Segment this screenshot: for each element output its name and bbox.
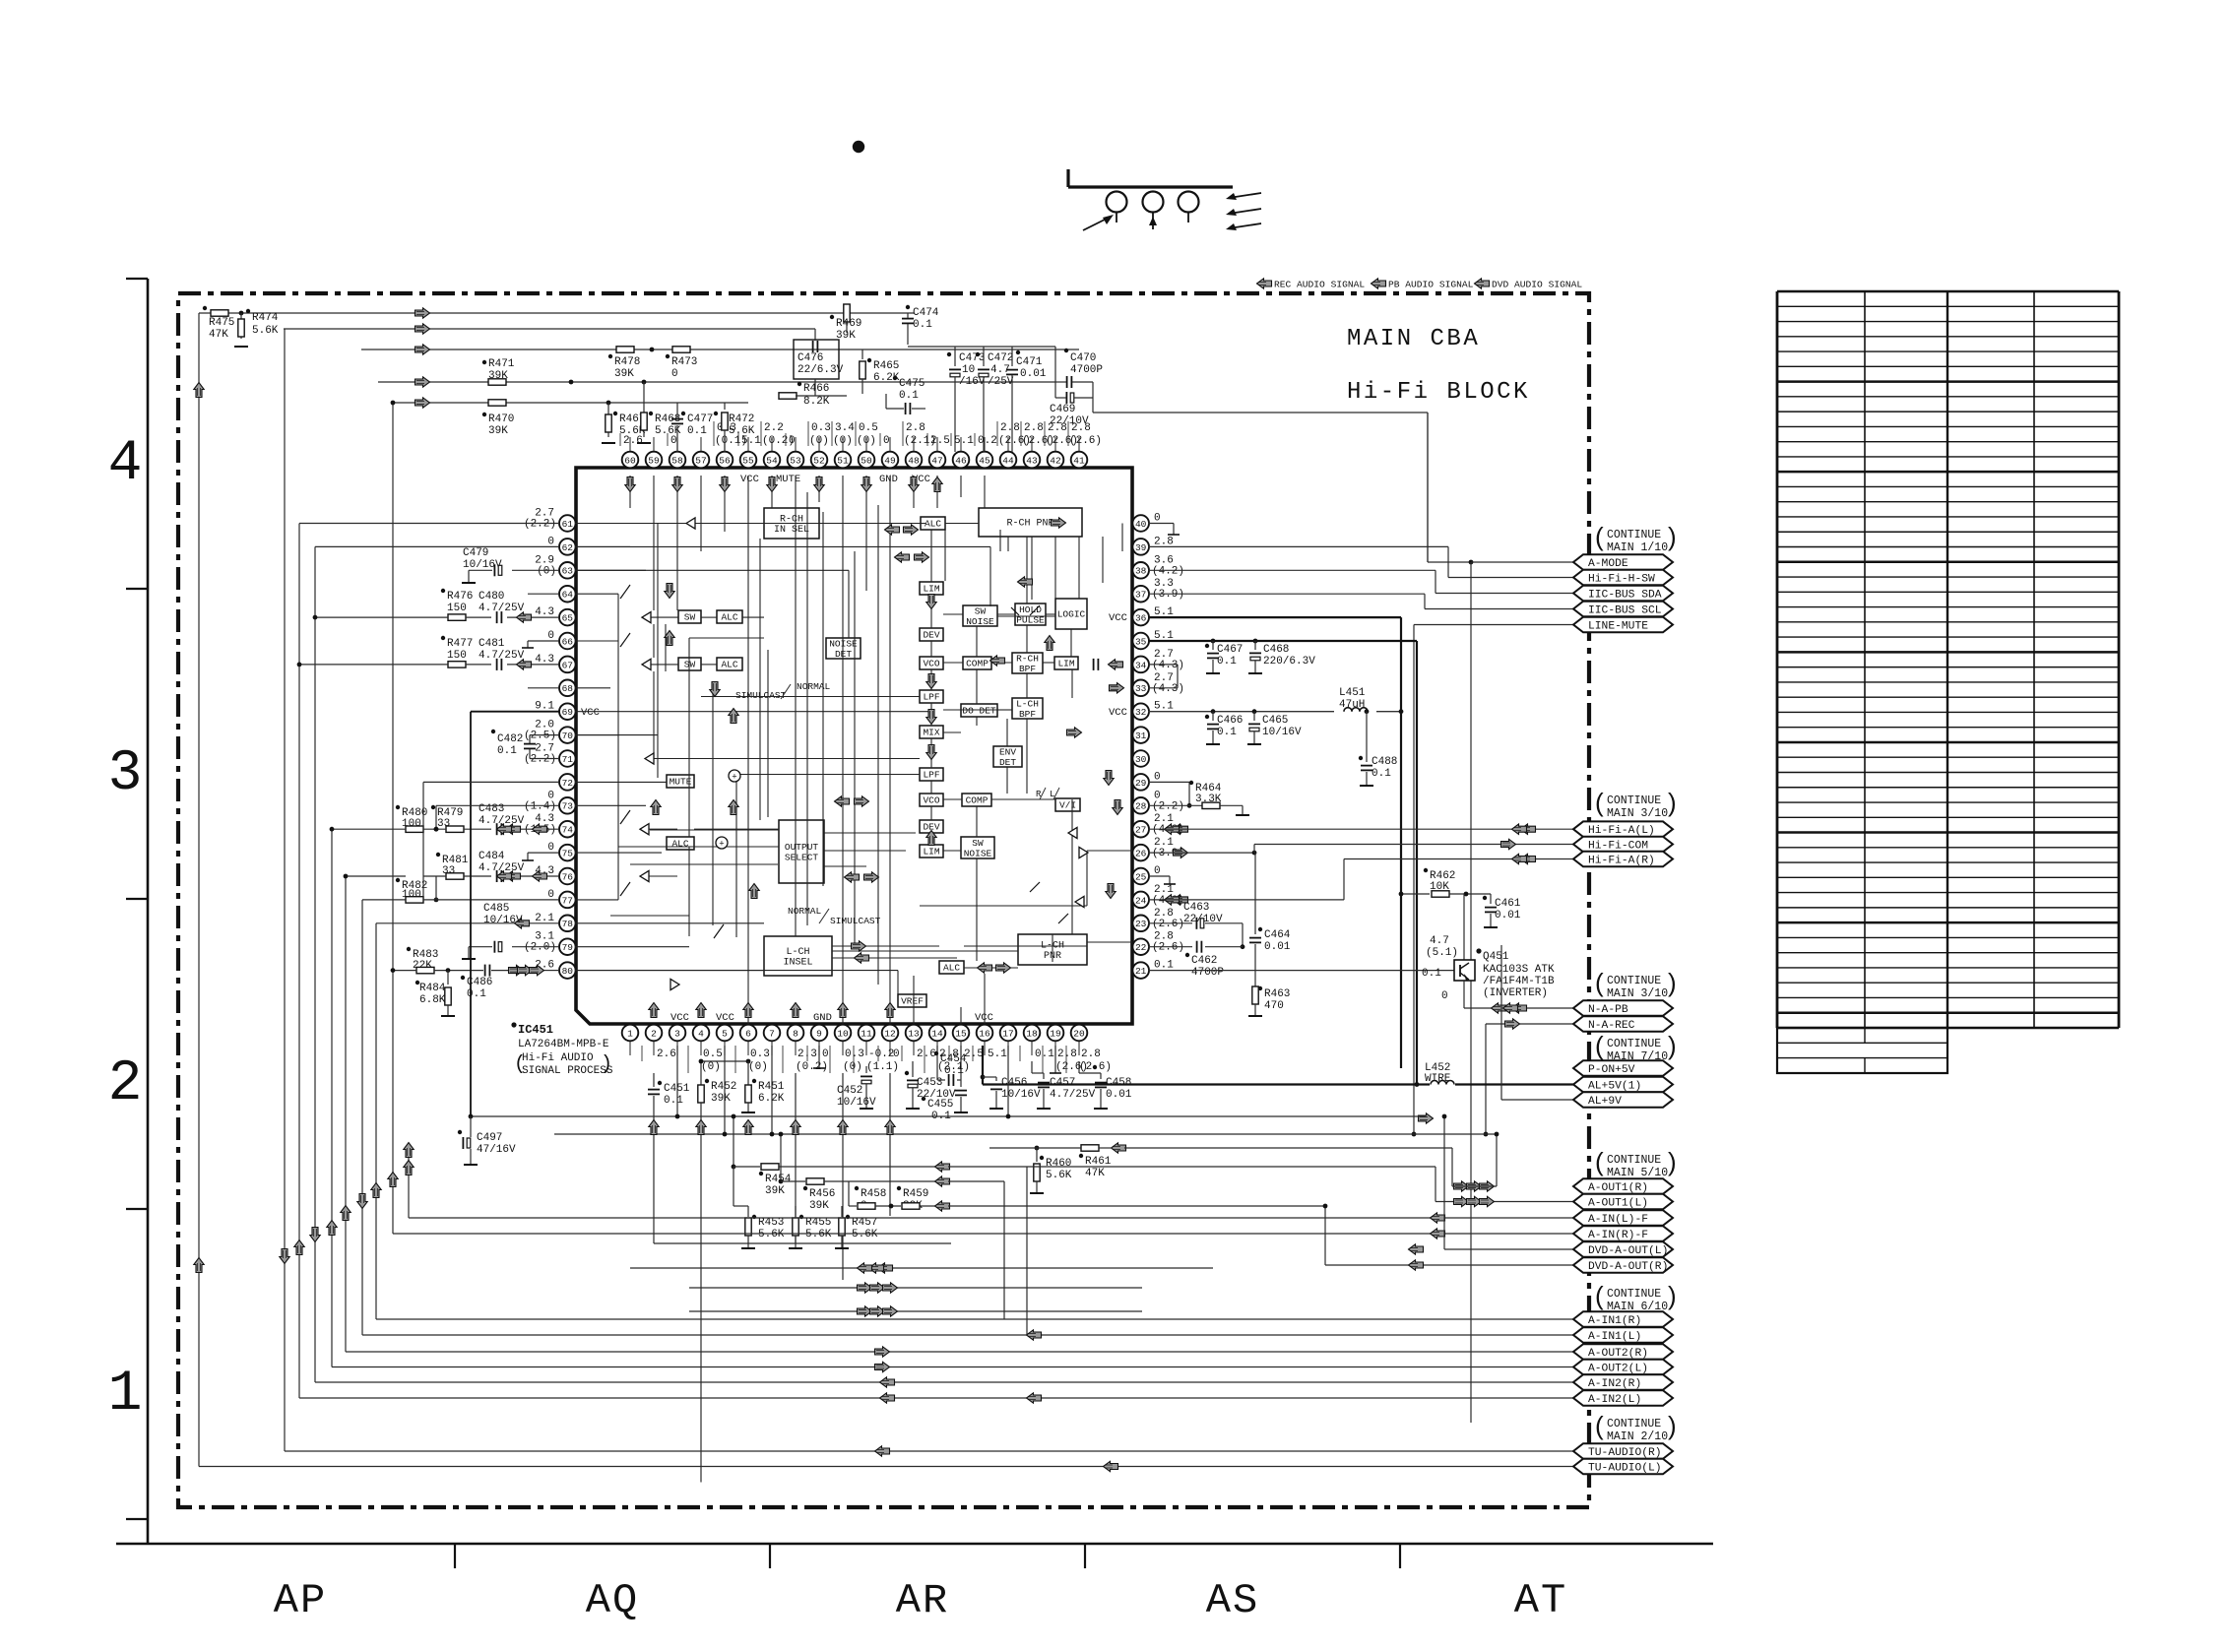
svg-text:A-IN2(R): A-IN2(R) bbox=[1588, 1378, 1641, 1390]
resistor R459 39K bbox=[897, 1186, 901, 1190]
svg-text:16: 16 bbox=[979, 1028, 990, 1039]
tag arrow AL+9V feed bbox=[1419, 1113, 1434, 1123]
wire bottom bus 2 bbox=[554, 1133, 1497, 1135]
svg-text:28: 28 bbox=[1135, 801, 1147, 812]
svg-text:(: ( bbox=[1595, 788, 1604, 817]
svg-text:0.1: 0.1 bbox=[664, 1095, 683, 1107]
tag arrows mid run 2 bbox=[858, 1306, 872, 1316]
wire R461 to A-OUT1R bbox=[1124, 1147, 1452, 1149]
svg-text:44: 44 bbox=[1002, 455, 1014, 466]
block LIM 1 bbox=[920, 582, 943, 595]
wire bottom bus 1 bbox=[471, 1115, 1426, 1117]
svg-text:): ) bbox=[1668, 1411, 1677, 1440]
svg-text:58: 58 bbox=[671, 455, 683, 466]
wire pin2 bottom run bbox=[654, 1242, 951, 1244]
svg-text:12: 12 bbox=[884, 1028, 896, 1039]
svg-text:C474: C474 bbox=[913, 307, 939, 319]
wire AL+5V from pin16 bbox=[982, 1046, 984, 1085]
svg-text:A-IN2(L): A-IN2(L) bbox=[1588, 1394, 1641, 1406]
svg-text:ALC: ALC bbox=[721, 612, 737, 623]
svg-text:11: 11 bbox=[861, 1028, 872, 1039]
svg-text:C471: C471 bbox=[1016, 356, 1043, 368]
svg-text:DET: DET bbox=[835, 649, 852, 660]
svg-text:49: 49 bbox=[884, 455, 896, 466]
svg-text:C453: C453 bbox=[917, 1077, 942, 1089]
svg-text:8: 8 bbox=[793, 1028, 798, 1039]
resistor R483 22K bbox=[407, 947, 411, 951]
svg-text:(: ( bbox=[1595, 1147, 1604, 1176]
svg-text:/25V: /25V bbox=[988, 376, 1014, 388]
triangle buffer right 24 bbox=[1075, 896, 1084, 907]
wire pin32 bus bbox=[1148, 711, 1334, 713]
tag pin33 bbox=[1110, 683, 1124, 693]
svg-text:0: 0 bbox=[822, 1048, 829, 1060]
svg-text:CONTINUE: CONTINUE bbox=[1607, 975, 1661, 987]
svg-text:0.3: 0.3 bbox=[750, 1048, 770, 1060]
svg-text:C470: C470 bbox=[1070, 352, 1096, 364]
svg-text:56: 56 bbox=[719, 455, 731, 466]
tape path arrow up bbox=[1152, 221, 1154, 229]
svg-text:R473: R473 bbox=[671, 356, 697, 368]
ic switch marks bbox=[620, 585, 630, 599]
wire pin36 VCC bus bbox=[1148, 616, 1401, 618]
resistor R466 8.2K bbox=[814, 379, 816, 396]
svg-text:8.2K: 8.2K bbox=[803, 396, 830, 408]
node AL+9V bbox=[1573, 1092, 1673, 1108]
block R-CH PNR bbox=[979, 508, 1082, 537]
svg-text:LPF: LPF bbox=[923, 692, 939, 703]
svg-text:34: 34 bbox=[1135, 660, 1147, 670]
svg-text:(4.3): (4.3) bbox=[1152, 660, 1184, 671]
node junction R474 bbox=[239, 311, 244, 316]
wire pin21 to Q451 base bbox=[1148, 970, 1454, 972]
svg-text:7: 7 bbox=[769, 1028, 775, 1039]
wire LINE-MUTE bbox=[1413, 625, 1415, 1135]
svg-text:DVD AUDIO SIGNAL: DVD AUDIO SIGNAL bbox=[1492, 280, 1582, 290]
svg-text:0.1: 0.1 bbox=[1217, 656, 1237, 667]
resistor R473 0 bbox=[672, 347, 690, 352]
wire ic inner horizontals bbox=[575, 523, 688, 525]
tag arrows staircase bbox=[194, 383, 204, 398]
svg-text:INSEL: INSEL bbox=[783, 957, 812, 968]
svg-text:(0): (0) bbox=[748, 1061, 768, 1073]
svg-text:CONTINUE: CONTINUE bbox=[1607, 1154, 1661, 1167]
svg-text:0.5: 0.5 bbox=[859, 422, 878, 434]
svg-text:(4.2): (4.2) bbox=[1152, 565, 1184, 577]
svg-text:R470: R470 bbox=[488, 413, 514, 425]
wire ic inner vertical buses bbox=[747, 476, 749, 982]
resistor R476 150 bbox=[441, 589, 445, 593]
svg-text:36: 36 bbox=[1135, 613, 1147, 624]
svg-text:10/16V: 10/16V bbox=[1262, 727, 1302, 738]
wire pin5 column bbox=[724, 1046, 726, 1134]
wire ic inner block links bbox=[819, 523, 921, 525]
wire ic pin61 input bbox=[575, 523, 925, 525]
svg-text:A-IN1(L): A-IN1(L) bbox=[1588, 1331, 1641, 1343]
node Hi-Fi-H-SW bbox=[1573, 570, 1673, 586]
resistor R462 10K bbox=[1424, 868, 1428, 872]
wire pin24 Hi-Fi-A(R) bbox=[1174, 895, 1188, 905]
svg-text:(2.0): (2.0) bbox=[524, 942, 556, 954]
svg-text:6: 6 bbox=[745, 1028, 751, 1039]
capacitor C452 10/16V bbox=[865, 1066, 867, 1073]
svg-text:10/16V: 10/16V bbox=[483, 915, 523, 926]
tape path symbol bar bbox=[1068, 185, 1233, 188]
svg-text:10: 10 bbox=[962, 364, 975, 376]
svg-text:Hi-Fi-A(L): Hi-Fi-A(L) bbox=[1588, 825, 1655, 837]
wire pin77 bbox=[362, 899, 406, 901]
svg-text:3.3K: 3.3K bbox=[1195, 794, 1222, 805]
svg-text:24: 24 bbox=[1135, 895, 1147, 906]
svg-text:IC451: IC451 bbox=[518, 1023, 553, 1037]
svg-text:N-A-PB: N-A-PB bbox=[1588, 1004, 1628, 1016]
svg-text:VCC: VCC bbox=[581, 707, 600, 719]
svg-text:39K: 39K bbox=[711, 1093, 731, 1105]
triangle buffer pin74 bbox=[640, 824, 649, 835]
ground R474 bbox=[234, 346, 248, 348]
svg-text:43: 43 bbox=[1026, 455, 1038, 466]
resistor R479 33 bbox=[431, 805, 435, 809]
svg-text:R463: R463 bbox=[1264, 988, 1290, 1000]
svg-text:REC AUDIO SIGNAL: REC AUDIO SIGNAL bbox=[1274, 280, 1365, 290]
svg-text:GND: GND bbox=[879, 474, 898, 485]
svg-text:A-OUT1(L): A-OUT1(L) bbox=[1588, 1198, 1648, 1210]
triangle buffer pin71 bbox=[645, 753, 654, 764]
inductor L452 WIRE bbox=[1417, 1083, 1430, 1085]
svg-text:0.1: 0.1 bbox=[1217, 727, 1237, 738]
tag arrows pin74 bbox=[506, 824, 521, 834]
svg-text:5: 5 bbox=[722, 1028, 728, 1039]
tag arrows A-OUT1 bbox=[1454, 1181, 1469, 1191]
svg-text:10/16V: 10/16V bbox=[1001, 1089, 1041, 1101]
capacitor C470 4700P bbox=[1064, 349, 1068, 352]
svg-text:(: ( bbox=[1595, 1411, 1604, 1440]
tape path roller 1 bbox=[1107, 192, 1127, 213]
svg-text:SIMULCAST: SIMULCAST bbox=[735, 690, 787, 701]
svg-text:5.1: 5.1 bbox=[988, 1048, 1007, 1060]
svg-text:50: 50 bbox=[861, 455, 872, 466]
svg-text:62: 62 bbox=[562, 542, 574, 553]
capacitor C453 22/10V bbox=[912, 1061, 914, 1077]
IC451 left pin circles 61-80 bbox=[559, 515, 576, 532]
svg-text:C461: C461 bbox=[1495, 898, 1521, 910]
wire pin25 stub bbox=[1148, 875, 1170, 877]
svg-text:(4.3): (4.3) bbox=[1152, 683, 1184, 695]
svg-text:WIRE: WIRE bbox=[1425, 1073, 1451, 1085]
svg-text:0.3: 0.3 bbox=[811, 422, 831, 434]
svg-text:C484: C484 bbox=[478, 851, 505, 862]
wire mid run 3 bbox=[630, 1267, 1213, 1269]
svg-text:C469: C469 bbox=[1050, 404, 1075, 415]
svg-text:(2.6): (2.6) bbox=[1069, 435, 1102, 447]
svg-text:+: + bbox=[719, 840, 724, 850]
svg-text:IN SEL: IN SEL bbox=[774, 525, 809, 536]
svg-text:R484: R484 bbox=[419, 983, 446, 994]
resistor R456 39K bbox=[780, 1134, 782, 1181]
resistor R475 47K bbox=[211, 310, 228, 316]
svg-text:2.6: 2.6 bbox=[917, 1048, 936, 1060]
svg-text:MAIN 1/10: MAIN 1/10 bbox=[1607, 541, 1668, 554]
capacitor C488 0.1 bbox=[1365, 709, 1370, 714]
node A-OUT2(R) bbox=[1573, 1344, 1673, 1360]
svg-text:22/6.3V: 22/6.3V bbox=[797, 364, 844, 376]
svg-text:22: 22 bbox=[1135, 942, 1147, 953]
svg-text:6.8K: 6.8K bbox=[419, 994, 446, 1006]
svg-text:LA7264BM-MPB-E: LA7264BM-MPB-E bbox=[518, 1039, 609, 1050]
svg-text:0.1: 0.1 bbox=[944, 1065, 964, 1077]
node pin67 join bbox=[297, 663, 302, 667]
IC451 bottom pin circles 1-20 bbox=[629, 1042, 631, 1056]
wire A-MODE long vertical bbox=[1470, 562, 1472, 1423]
svg-text:0: 0 bbox=[789, 435, 796, 447]
wire pin37 to IIC-BUS SCL bbox=[1148, 593, 1425, 595]
svg-text:ALC: ALC bbox=[943, 963, 960, 974]
tape path arrows out bbox=[1229, 193, 1261, 198]
wire pin73 outer bbox=[436, 804, 559, 806]
triangle buffer pin61 bbox=[686, 518, 695, 529]
svg-text:18: 18 bbox=[1026, 1028, 1038, 1039]
capacitor C458 0.01 bbox=[1078, 1061, 1080, 1073]
svg-text:30: 30 bbox=[1135, 754, 1147, 765]
svg-text:GND: GND bbox=[813, 1012, 832, 1024]
svg-text:0.1: 0.1 bbox=[1154, 960, 1174, 972]
svg-text:MAIN 3/10: MAIN 3/10 bbox=[1607, 987, 1668, 1000]
block SW NOISE 1 bbox=[963, 605, 997, 626]
svg-text:(0): (0) bbox=[833, 435, 853, 447]
svg-text:39K: 39K bbox=[488, 370, 508, 382]
block COMP 1 bbox=[963, 657, 991, 669]
resistor R481 33 bbox=[436, 853, 440, 857]
tag arrow R456 line bbox=[935, 1176, 950, 1186]
resistor R477 150 bbox=[441, 636, 445, 640]
capacitor C465 10/16V bbox=[1252, 709, 1257, 714]
svg-text:0.01: 0.01 bbox=[1106, 1089, 1132, 1101]
svg-text:A-OUT2(L): A-OUT2(L) bbox=[1588, 1364, 1648, 1375]
svg-text:A-IN(R)-F: A-IN(R)-F bbox=[1588, 1230, 1648, 1241]
ground R467 bbox=[602, 442, 615, 444]
wire A-OUT1R from bus bbox=[1452, 1185, 1497, 1187]
svg-text:0: 0 bbox=[671, 368, 678, 380]
svg-text:0.2: 0.2 bbox=[978, 435, 997, 447]
capacitor C497 47/16V bbox=[470, 1116, 472, 1137]
svg-text:R474: R474 bbox=[252, 312, 279, 324]
svg-text:0: 0 bbox=[893, 1048, 900, 1060]
svg-text:C488: C488 bbox=[1372, 756, 1397, 768]
block ALC b bbox=[717, 658, 742, 670]
svg-text:0.1: 0.1 bbox=[497, 745, 517, 757]
hi-fi block dash-dot border bbox=[178, 293, 1589, 1507]
block DEV 2 bbox=[920, 820, 943, 833]
node IIC-BUS SDA bbox=[1573, 586, 1673, 602]
svg-text:Hi-Fi-H-SW: Hi-Fi-H-SW bbox=[1588, 574, 1655, 586]
svg-text:BPF: BPF bbox=[1019, 709, 1036, 720]
capacitor C472 4.7/25V bbox=[983, 347, 985, 366]
svg-text:C464: C464 bbox=[1264, 929, 1291, 941]
resistor R453 5.6K bbox=[747, 1206, 749, 1217]
svg-text:DEV: DEV bbox=[923, 630, 939, 641]
wire pin74 bbox=[332, 828, 406, 830]
svg-text:33: 33 bbox=[1135, 683, 1147, 694]
svg-text:C463: C463 bbox=[1183, 902, 1209, 914]
svg-text:74: 74 bbox=[562, 825, 574, 836]
svg-text:C482: C482 bbox=[497, 733, 523, 745]
svg-text:(: ( bbox=[514, 1053, 526, 1076]
svg-text:77: 77 bbox=[562, 895, 573, 906]
block LOGIC bbox=[1055, 599, 1087, 629]
node A-OUT1(L) bbox=[1573, 1194, 1673, 1210]
svg-text:Hi-Fi-A(R): Hi-Fi-A(R) bbox=[1588, 856, 1655, 867]
svg-text:AP: AP bbox=[274, 1577, 327, 1624]
svg-text:): ) bbox=[1668, 522, 1677, 551]
wire pin65 bbox=[315, 616, 448, 618]
svg-text:A-OUT1(R): A-OUT1(R) bbox=[1588, 1182, 1648, 1194]
svg-text:C475: C475 bbox=[899, 378, 925, 390]
svg-text:A-IN(L)-F: A-IN(L)-F bbox=[1588, 1214, 1648, 1226]
svg-text:3: 3 bbox=[674, 1028, 680, 1039]
svg-text:/FA1F4M-T1B: /FA1F4M-T1B bbox=[1483, 976, 1555, 987]
resistor R474 5.6K bbox=[240, 313, 242, 339]
svg-text:2.5: 2.5 bbox=[930, 435, 950, 447]
svg-text:20: 20 bbox=[1073, 1028, 1085, 1039]
transistor Q451 inverter bbox=[1463, 894, 1465, 960]
resistor R471 39K bbox=[488, 379, 506, 385]
resistor R467 5.6K bbox=[606, 401, 611, 406]
svg-text:2.1: 2.1 bbox=[535, 913, 554, 924]
wire ic inner mesh extra bbox=[575, 545, 990, 547]
svg-text:SW: SW bbox=[972, 838, 984, 849]
sheet border ruler bottom bbox=[116, 1543, 1713, 1546]
block ENV DET bbox=[993, 746, 1022, 767]
svg-text:220/6.3V: 220/6.3V bbox=[1263, 656, 1315, 667]
svg-text:53: 53 bbox=[790, 455, 801, 466]
svg-text:72: 72 bbox=[562, 778, 574, 789]
svg-text:DET: DET bbox=[999, 757, 1016, 768]
resistor R455 5.6K bbox=[795, 1217, 797, 1243]
svg-text:39K: 39K bbox=[809, 1200, 829, 1212]
svg-text:2.8: 2.8 bbox=[1000, 422, 1020, 434]
svg-text:2: 2 bbox=[108, 1052, 143, 1116]
svg-text:27: 27 bbox=[1135, 825, 1146, 836]
svg-text:DVD-A-OUT(R): DVD-A-OUT(R) bbox=[1588, 1261, 1668, 1273]
svg-text:4: 4 bbox=[108, 432, 143, 496]
resistor R480 100 bbox=[396, 805, 400, 809]
resistor R454 39K bbox=[733, 1116, 734, 1167]
triangle buffer pin67 bbox=[642, 659, 651, 669]
ground R468 bbox=[637, 442, 651, 444]
svg-text:C466: C466 bbox=[1217, 715, 1243, 727]
wire mid run 1 bbox=[689, 1287, 1142, 1289]
resistor R460 5.6K bbox=[1035, 1146, 1040, 1151]
svg-text:(0): (0) bbox=[701, 1061, 721, 1073]
svg-text:79: 79 bbox=[562, 942, 574, 953]
legend DVD AUDIO SIGNAL bbox=[1475, 279, 1490, 288]
legend PB AUDIO SIGNAL bbox=[1372, 279, 1386, 288]
svg-text:): ) bbox=[1668, 1031, 1677, 1060]
svg-text:DVD-A-OUT(L): DVD-A-OUT(L) bbox=[1588, 1245, 1668, 1257]
svg-text:C457: C457 bbox=[1050, 1077, 1075, 1089]
tag arrow pin67 bbox=[517, 660, 532, 669]
junction dots staircase bbox=[391, 968, 396, 973]
svg-text:NOISE: NOISE bbox=[966, 616, 994, 627]
block VCO 2 bbox=[920, 794, 943, 806]
svg-text:(0): (0) bbox=[843, 1061, 862, 1073]
wire pin72 outer bbox=[423, 781, 559, 783]
svg-text:A-IN1(R): A-IN1(R) bbox=[1588, 1315, 1641, 1327]
svg-text:39K: 39K bbox=[488, 425, 508, 437]
svg-text:0.1: 0.1 bbox=[467, 988, 486, 1000]
svg-text:67: 67 bbox=[562, 660, 573, 670]
svg-text:C473: C473 bbox=[959, 352, 985, 364]
svg-text:IIC-BUS SCL: IIC-BUS SCL bbox=[1588, 605, 1662, 617]
svg-text:C485: C485 bbox=[483, 903, 509, 915]
svg-text:70: 70 bbox=[562, 731, 574, 741]
svg-text:LIM: LIM bbox=[923, 584, 939, 595]
svg-text:C454: C454 bbox=[940, 1053, 967, 1065]
svg-text:C476: C476 bbox=[797, 352, 823, 364]
node pin65 join bbox=[313, 615, 318, 620]
svg-text:Hi-Fi BLOCK: Hi-Fi BLOCK bbox=[1347, 379, 1530, 406]
tags A-IN-F bbox=[1431, 1213, 1445, 1223]
svg-text:-0.2: -0.2 bbox=[868, 1048, 894, 1060]
wire pin27 Hi-Fi-A(L) bbox=[1174, 824, 1188, 834]
block DO DET bbox=[961, 704, 997, 717]
node AL+5V(1) bbox=[1573, 1077, 1673, 1093]
svg-text:5.1: 5.1 bbox=[954, 435, 974, 447]
svg-text:59: 59 bbox=[648, 455, 660, 466]
capacitor C457 4.7/25V bbox=[1031, 1061, 1033, 1073]
resistor R469 39K bbox=[846, 313, 848, 333]
svg-text:17: 17 bbox=[1002, 1028, 1013, 1039]
svg-text:NORMAL: NORMAL bbox=[788, 906, 822, 917]
triangle buffer right 27 bbox=[1068, 827, 1077, 838]
svg-text:0: 0 bbox=[1154, 865, 1161, 877]
svg-text:R465: R465 bbox=[873, 360, 899, 372]
svg-text:SIMULCAST: SIMULCAST bbox=[830, 916, 881, 926]
svg-text:VCO: VCO bbox=[923, 795, 939, 806]
svg-text:AR: AR bbox=[896, 1577, 949, 1624]
svg-text:R466: R466 bbox=[803, 383, 829, 395]
svg-text:13: 13 bbox=[908, 1028, 920, 1039]
wire top bus 2 bbox=[284, 328, 815, 330]
svg-text:SW: SW bbox=[684, 660, 696, 670]
svg-text:R460: R460 bbox=[1046, 1158, 1071, 1170]
svg-text:NORMAL: NORMAL bbox=[797, 681, 831, 692]
resistor R452 39K bbox=[700, 1061, 702, 1085]
svg-text:1: 1 bbox=[627, 1028, 633, 1039]
svg-text:66: 66 bbox=[562, 636, 574, 647]
parts table extension bbox=[1777, 1028, 1947, 1073]
parts table grid bbox=[1777, 290, 2119, 293]
node N-A-PB bbox=[1573, 1000, 1673, 1016]
svg-text:54: 54 bbox=[766, 455, 778, 466]
node Hi-Fi-A(R) bbox=[1573, 852, 1673, 867]
block HOLD PULSE bbox=[1015, 604, 1046, 625]
wire pin17 column bbox=[1007, 1046, 1009, 1116]
svg-text:R461: R461 bbox=[1085, 1156, 1112, 1168]
svg-text:): ) bbox=[601, 1053, 612, 1076]
svg-text:AQ: AQ bbox=[586, 1577, 639, 1624]
svg-text:DO DET: DO DET bbox=[962, 706, 996, 717]
capacitor C474 0.1 bbox=[906, 305, 910, 309]
svg-text:(1.4): (1.4) bbox=[524, 800, 556, 812]
node junction top3 bbox=[650, 348, 655, 352]
wire ic inner mesh extra2 bbox=[806, 492, 808, 925]
node LINE-MUTE bbox=[1573, 617, 1673, 633]
svg-text:R-CH PNR: R-CH PNR bbox=[1006, 519, 1053, 530]
wire pin12 down bbox=[889, 1073, 891, 1216]
svg-text:R476: R476 bbox=[447, 591, 473, 603]
ground R484 bbox=[441, 1015, 455, 1017]
